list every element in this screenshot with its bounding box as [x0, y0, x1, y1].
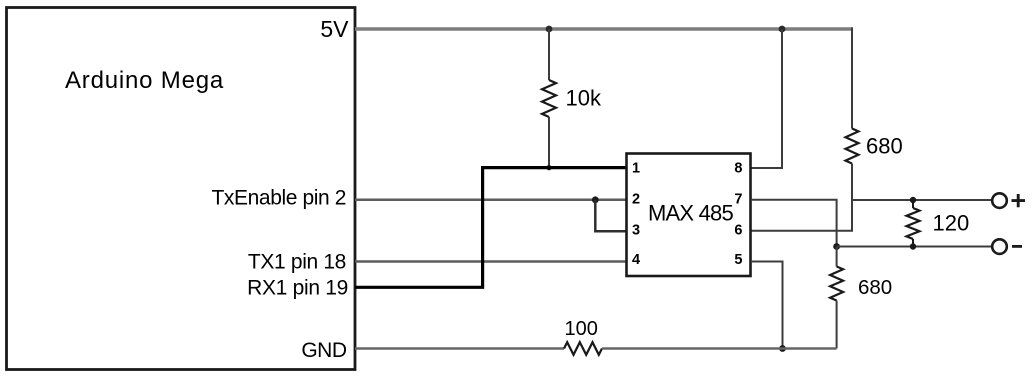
svg-text:GND: GND [301, 339, 347, 362]
plus sign [1012, 194, 1026, 207]
svg-text:680: 680 [866, 133, 903, 158]
Arduino Mega box U2 [7, 8, 356, 370]
node junction 120 bottom [910, 243, 916, 249]
wire 5V rail [355, 27, 852, 30]
resistor R5 100 [564, 342, 602, 355]
terminal plus [992, 193, 1007, 208]
wire pin 7 (B) to minus bus [751, 200, 837, 247]
wire RX1 pin19 to pin 1 RO [355, 168, 627, 288]
resistor R3 120 termination [907, 208, 920, 239]
node junction 5V-pin8 [779, 26, 786, 33]
MAX 485 IC U1 [627, 154, 751, 277]
wire GND to 680 pull-down [602, 347, 837, 350]
wire TX1 pin18 to pin 4 DI [355, 260, 627, 263]
wire 10k leads [548, 29, 550, 80]
wire 680 pull-down lower lead [836, 301, 838, 349]
node junction 120 top [910, 197, 916, 203]
svg-text:3: 3 [632, 223, 640, 239]
resistor R2 680 (pull-up) [846, 129, 859, 164]
wire stub to pin 3 RE [595, 200, 626, 232]
wire 5V rail drop to 680 top [851, 27, 853, 128]
svg-text:TxEnable pin 2: TxEnable pin 2 [212, 187, 347, 210]
svg-text:MAX 485: MAX 485 [648, 200, 733, 225]
svg-text:7: 7 [734, 192, 742, 208]
wire 10k lower lead [548, 117, 550, 168]
node junction B line [833, 243, 840, 250]
resistor R1 10k [542, 80, 556, 117]
wire 680 pull-up to pin 6 (A) [751, 164, 852, 231]
svg-text:10k: 10k [566, 86, 602, 111]
minus sign [1012, 245, 1022, 248]
svg-text:120: 120 [933, 211, 970, 236]
svg-text:RX1 pin 19: RX1 pin 19 [247, 277, 348, 300]
node junction pin5-GND [779, 345, 786, 352]
wire 120 top lead [912, 200, 914, 208]
svg-text:2: 2 [632, 192, 640, 208]
svg-text:100: 100 [565, 318, 598, 340]
svg-text:Arduino Mega: Arduino Mega [65, 67, 224, 94]
wire plus bus [852, 199, 991, 201]
wire minus bus [837, 246, 991, 248]
wire 680 pull-down upper lead [836, 247, 838, 267]
node junction TxEnable [592, 196, 599, 203]
node junction 5V-10k [546, 26, 553, 33]
node junction 10k-RO [546, 165, 551, 170]
svg-text:6: 6 [734, 223, 742, 239]
svg-text:5: 5 [734, 252, 742, 268]
wire 5V to pin 8 [751, 29, 782, 168]
svg-text:4: 4 [632, 252, 640, 268]
wire pin 5 GND to ground bus [751, 262, 783, 349]
svg-text:TX1 pin 18: TX1 pin 18 [248, 251, 346, 274]
wire GND from Arduino [355, 347, 564, 350]
svg-text:680: 680 [858, 276, 892, 299]
wire 120 bottom lead [912, 239, 914, 247]
wire TxEnable pin2 [355, 199, 627, 202]
svg-text:8: 8 [734, 161, 742, 177]
svg-text:5V: 5V [320, 16, 349, 42]
svg-text:1: 1 [632, 161, 640, 177]
resistor R4 680 (pull-down) [830, 267, 843, 301]
terminal minus [992, 239, 1007, 254]
